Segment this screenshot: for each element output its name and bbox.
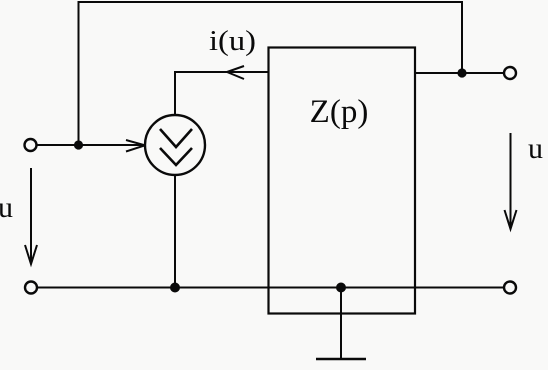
svg-text:u: u	[0, 191, 13, 224]
wire box to output top	[415, 72, 504, 74]
wire source top to node	[174, 72, 176, 115]
svg-text:u: u	[528, 132, 543, 165]
node junction ground	[336, 283, 346, 293]
impedance box Z(p)	[269, 48, 416, 314]
terminal input top-left	[25, 139, 37, 151]
current source chevron 2	[160, 148, 192, 165]
arrow u right	[505, 133, 517, 229]
arrow u left	[25, 168, 37, 264]
node junction source bottom	[170, 283, 180, 293]
wire input to source	[36, 144, 146, 146]
wire bottom rail	[37, 287, 504, 289]
arrow i(u) left	[227, 66, 244, 79]
terminal bottom-left	[25, 282, 37, 294]
node junction top-right	[457, 68, 466, 77]
terminal bottom-right	[504, 282, 516, 294]
current source U1 circle	[145, 115, 205, 175]
wire source bottom to rail	[174, 175, 176, 288]
wire top feedback loop	[79, 2, 463, 145]
svg-text:i(u): i(u)	[209, 26, 256, 57]
terminal output top-right	[504, 67, 516, 79]
ground	[316, 358, 366, 361]
wire i(u) horizontal	[174, 71, 269, 73]
current source chevron 1	[160, 129, 192, 147]
arrow into source	[126, 140, 145, 152]
wire to ground	[340, 288, 342, 359]
svg-text:Z(p): Z(p)	[310, 94, 369, 130]
node junction left	[74, 140, 83, 149]
